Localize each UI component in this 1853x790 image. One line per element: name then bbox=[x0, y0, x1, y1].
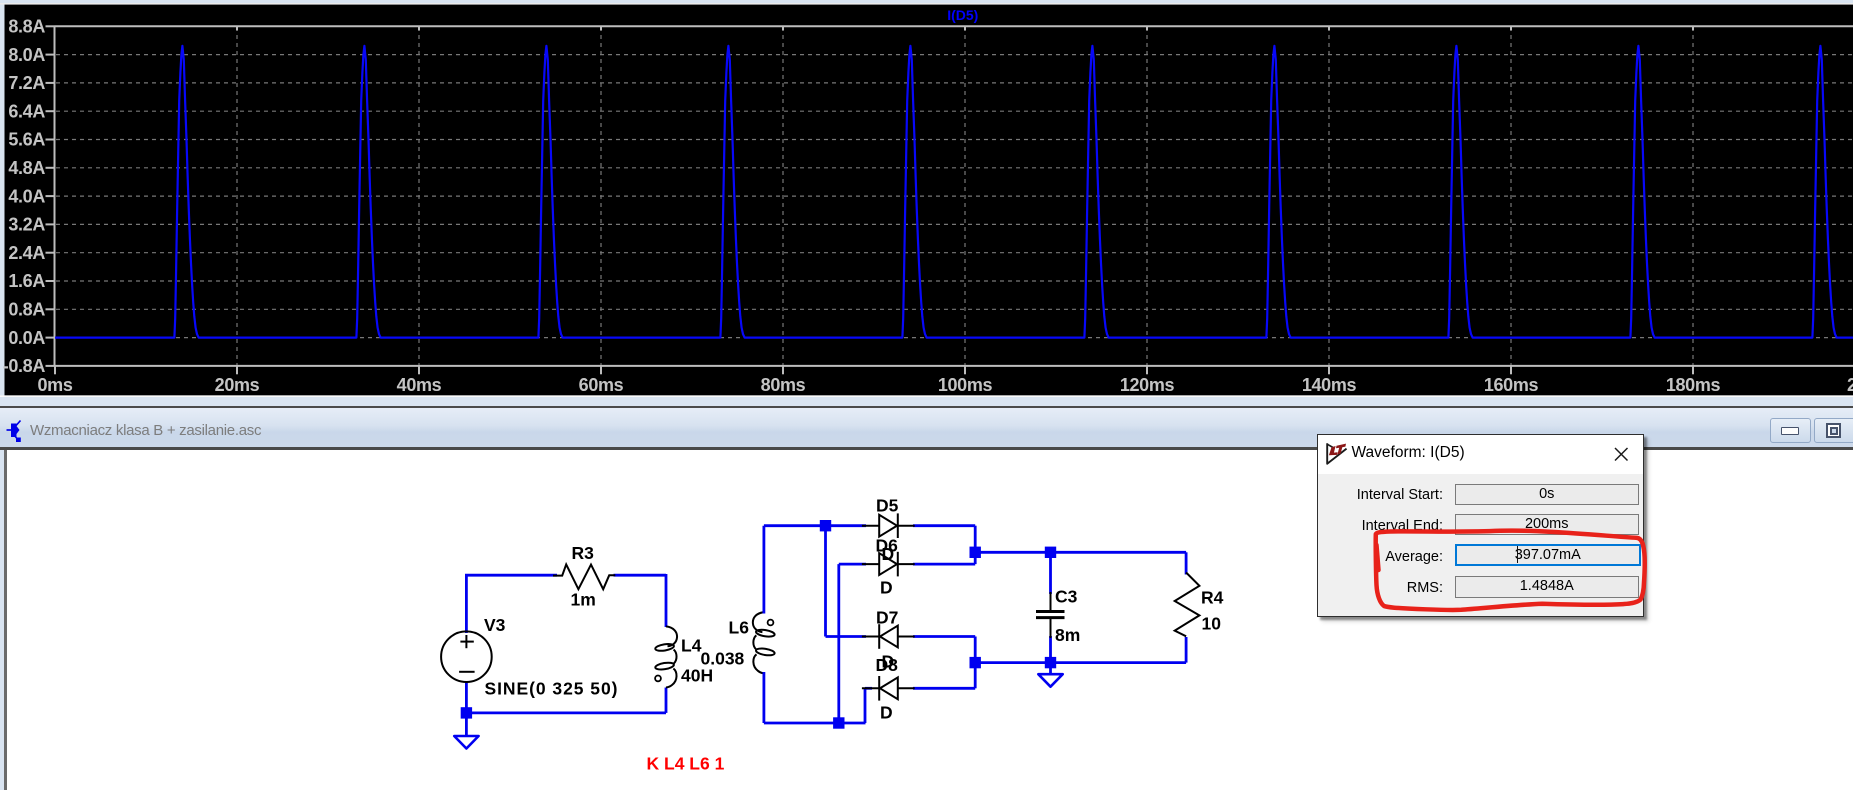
capacitor C3 bbox=[1036, 592, 1065, 638]
svg-text:R4: R4 bbox=[1201, 588, 1224, 608]
wire L4 bottom to bottom rail bbox=[665, 688, 668, 713]
svg-text:C3: C3 bbox=[1055, 587, 1078, 607]
V3 minus sign bbox=[459, 671, 475, 673]
schematic file icon bbox=[5, 417, 27, 443]
voltage source V3 circle bbox=[441, 631, 492, 682]
svg-text:L4: L4 bbox=[681, 636, 702, 656]
wire V3 bottom to ground bbox=[465, 682, 468, 736]
svg-text:40H: 40H bbox=[681, 666, 713, 686]
LT logo bbox=[1325, 442, 1348, 465]
wire D8 anode to bottom output bbox=[913, 687, 975, 690]
close X bbox=[1613, 446, 1631, 464]
field Interval Start bbox=[1455, 484, 1640, 506]
x axis labels bbox=[38, 375, 1721, 395]
y axis labels bbox=[3, 17, 46, 377]
schematic window title text bbox=[30, 422, 261, 439]
y tick marks bbox=[46, 26, 55, 366]
wire L6 top to bridge bbox=[763, 526, 766, 614]
grid vertical dashed bbox=[237, 27, 1693, 366]
label Interval End bbox=[1362, 518, 1443, 534]
wire C3 bottom bbox=[1049, 636, 1052, 663]
svg-text:1m: 1m bbox=[571, 590, 596, 610]
wire R3 to L4 top corner bbox=[614, 574, 667, 577]
field Average (focused) bbox=[1455, 544, 1642, 567]
wire D7 anode to bottom output bbox=[913, 635, 975, 638]
svg-text:R3: R3 bbox=[572, 543, 595, 563]
svg-text:D: D bbox=[880, 578, 893, 598]
wire R4 bottom bbox=[1185, 637, 1188, 663]
wire L6 bottom rail bbox=[763, 672, 766, 723]
maximize button bbox=[1814, 418, 1853, 443]
minimize button bbox=[1770, 418, 1811, 443]
svg-text:V3: V3 bbox=[484, 615, 506, 635]
svg-text:10: 10 bbox=[1202, 614, 1222, 634]
axis frame left bbox=[54, 26, 56, 366]
schematic canvas white bbox=[0, 450, 1853, 790]
diode D6 bbox=[862, 552, 915, 577]
svg-text:0.038: 0.038 bbox=[701, 649, 745, 669]
svg-text:L6: L6 bbox=[729, 618, 750, 638]
wire C3 to ground bbox=[1049, 663, 1052, 674]
ground at V3 bbox=[454, 736, 478, 749]
svg-text:D5: D5 bbox=[876, 496, 899, 516]
junction bottom output rail left bbox=[970, 657, 981, 668]
wire top output rail bbox=[975, 551, 1186, 554]
label RMS bbox=[1407, 580, 1443, 596]
wire bottom rail to V3 ground junction bbox=[466, 712, 666, 715]
svg-text:D: D bbox=[880, 703, 893, 723]
wire R4 top bbox=[1185, 552, 1188, 574]
label Interval Start bbox=[1357, 487, 1443, 503]
svg-text:D7: D7 bbox=[876, 608, 898, 628]
axis frame bottom bbox=[55, 365, 1853, 367]
wire top junction down to D7 bbox=[824, 526, 827, 637]
grid horizontal dashed bbox=[56, 55, 1853, 338]
svg-text:D6: D6 bbox=[876, 536, 899, 556]
wire D6 cathode to top output bbox=[913, 563, 975, 566]
svg-text:SINE(0 325 50): SINE(0 325 50) bbox=[485, 679, 619, 699]
waveform window background bbox=[0, 0, 1853, 397]
junction C3 top bbox=[1045, 547, 1056, 558]
junction C3 bottom bbox=[1045, 657, 1056, 668]
wire D8 cathode to bottom rail bbox=[865, 687, 872, 690]
V3 plus sign bbox=[460, 641, 473, 643]
junction top output rail left bbox=[970, 547, 981, 558]
svg-text:8m: 8m bbox=[1055, 625, 1080, 645]
resistor R3 bbox=[553, 564, 615, 589]
wire D5 cathode to top output bbox=[913, 524, 975, 527]
inductor L4 bbox=[655, 626, 677, 687]
wire D6 anode down to bottom rail bbox=[839, 563, 866, 566]
x tick marks bbox=[55, 366, 1693, 374]
axis frame top bbox=[55, 25, 1853, 27]
inductor L6 bbox=[753, 612, 775, 673]
phase dot L4 bbox=[655, 676, 661, 682]
svg-text:D8: D8 bbox=[876, 655, 899, 675]
dialog title bbox=[1352, 444, 1465, 462]
waveform plot window bbox=[0, 0, 1853, 397]
junction bottom rail bbox=[833, 717, 844, 728]
label Average bbox=[1385, 549, 1443, 565]
diode D5 bbox=[862, 513, 915, 538]
red hand-drawn circle around Average and RMS bbox=[1360, 525, 1660, 635]
trace I(D5) bbox=[55, 46, 1853, 338]
wire C3 top bbox=[1049, 552, 1052, 594]
diode D8 bbox=[862, 676, 915, 701]
junction transformer top bbox=[820, 520, 831, 531]
wire bottom output rail bbox=[975, 661, 1186, 664]
wire top junction to D5 bbox=[826, 524, 867, 527]
resistor R4 bbox=[1175, 573, 1200, 637]
svg-text:K L4 L6 1: K L4 L6 1 bbox=[647, 754, 725, 774]
phase dot L6 bbox=[768, 620, 774, 626]
text caret bbox=[1517, 546, 1518, 563]
field RMS bbox=[1455, 576, 1640, 598]
junction V3 ground node bbox=[461, 707, 472, 718]
wire V3 top to R3 bbox=[465, 575, 468, 633]
field Interval End bbox=[1455, 514, 1640, 536]
ground at C3 bbox=[1038, 674, 1062, 687]
diode D7 bbox=[862, 624, 915, 649]
schematic window title bar bbox=[0, 397, 1853, 406]
Waveform I(D5) dialog bbox=[1317, 434, 1644, 617]
